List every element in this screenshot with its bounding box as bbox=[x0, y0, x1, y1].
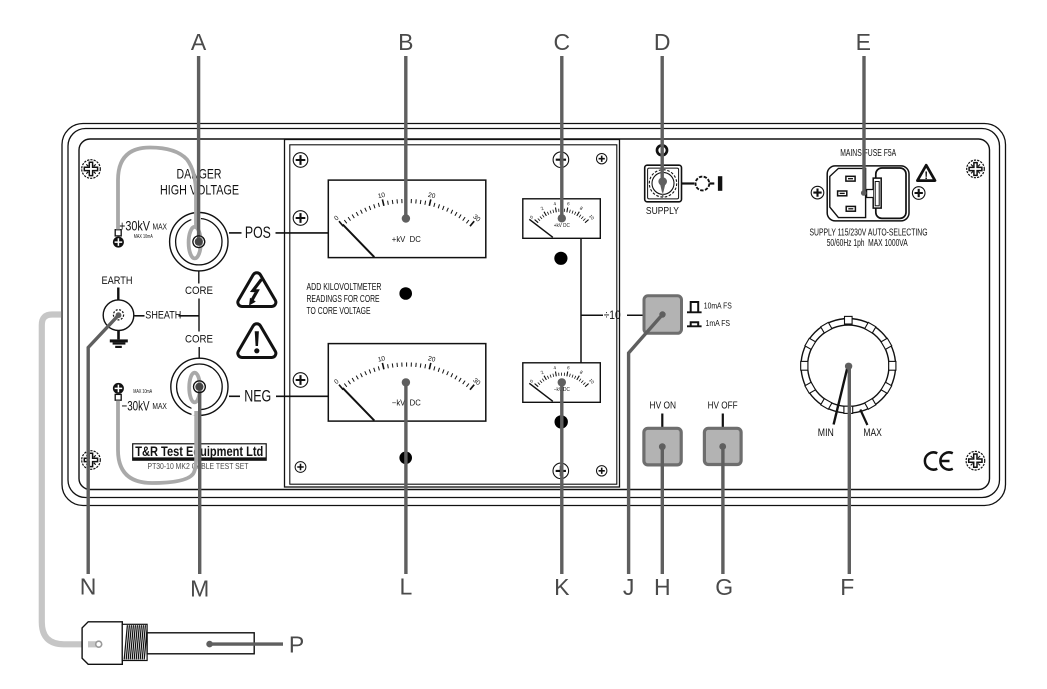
button HV OFF (G) bbox=[704, 428, 741, 464]
leader G bbox=[719, 443, 726, 450]
svg-text:L: L bbox=[400, 574, 413, 600]
kilovoltmeter L (-kV DC) bbox=[328, 344, 486, 422]
svg-text:HV ON: HV ON bbox=[650, 400, 677, 411]
hole below meter C bbox=[554, 252, 567, 265]
logo T&R Test Equipment Ltd bbox=[133, 444, 267, 460]
leader J bbox=[659, 311, 665, 317]
screw panel top-right bbox=[967, 160, 985, 178]
screw sub-panel bottom-mid bbox=[553, 463, 569, 479]
screw panel bottom-left bbox=[82, 451, 101, 470]
warning triangle lightning bbox=[238, 273, 276, 307]
svg-text:!: ! bbox=[924, 170, 928, 182]
leader H bbox=[659, 443, 666, 450]
probe body (P) bbox=[82, 622, 254, 665]
knob grip notches bbox=[845, 316, 853, 324]
leader C bbox=[560, 56, 563, 218]
screw sub-panel top-left bbox=[293, 153, 308, 168]
wire to range switch J bbox=[581, 314, 603, 316]
svg-text:N: N bbox=[80, 574, 97, 600]
svg-text:MAX 10mA: MAX 10mA bbox=[133, 389, 152, 395]
hole below meter L bbox=[399, 452, 412, 465]
svg-text:EARTH: EARTH bbox=[102, 275, 133, 287]
leader B bbox=[404, 56, 407, 218]
svg-text:SUPPLY: SUPPLY bbox=[646, 205, 679, 217]
svg-text:D: D bbox=[654, 29, 671, 55]
symbol O (off) bbox=[657, 145, 667, 155]
connector NEG (M) bbox=[171, 358, 228, 415]
wire EARTH label to terminal bbox=[117, 288, 119, 301]
screw sub-panel left-lower bbox=[293, 373, 308, 388]
wire CORE to CORE bbox=[198, 299, 200, 332]
svg-text:F: F bbox=[840, 574, 854, 600]
probe thread bbox=[122, 624, 147, 660]
svg-text:+30kV: +30kV bbox=[119, 217, 151, 233]
svg-text:K: K bbox=[554, 574, 570, 600]
front panel bbox=[79, 139, 990, 490]
svg-text:ADD KILOVOLTMETER: ADD KILOVOLTMETER bbox=[307, 282, 382, 293]
wire meter C to meter K bbox=[580, 238, 582, 362]
screw sub-panel top-mid bbox=[553, 152, 569, 168]
control knob F bbox=[801, 316, 896, 413]
svg-text:MAX: MAX bbox=[863, 427, 882, 439]
screw inlet right bbox=[912, 187, 925, 200]
leader N bbox=[88, 315, 118, 574]
leader K bbox=[558, 378, 566, 386]
leader L bbox=[402, 378, 410, 386]
svg-text:50/60Hz 1ph MAX 1000VA: 50/60Hz 1ph MAX 1000VA bbox=[827, 238, 908, 249]
svg-text:−30kV: −30kV bbox=[122, 398, 150, 414]
jumper cable +30kV to POS bbox=[118, 148, 196, 230]
svg-text:MAX 10mA: MAX 10mA bbox=[134, 234, 153, 240]
svg-text:P: P bbox=[289, 632, 304, 658]
svg-text:1mA FS: 1mA FS bbox=[706, 318, 731, 328]
screw panel top-left bbox=[82, 160, 101, 179]
screw sub-panel bottom-right bbox=[597, 466, 607, 476]
leader D (key) bbox=[661, 56, 664, 181]
leader A bbox=[197, 56, 200, 242]
MAX position mark bbox=[860, 410, 867, 426]
svg-text:MAX: MAX bbox=[153, 223, 168, 232]
svg-text:TO CORE VOLTAGE: TO CORE VOLTAGE bbox=[307, 306, 371, 317]
IEC mains inlet with fuse (E) bbox=[827, 166, 909, 221]
jumper cable -30kV to NEG bbox=[118, 401, 196, 484]
warning triangle exclamation bbox=[238, 324, 276, 358]
svg-text:J: J bbox=[623, 574, 635, 600]
knob pointer bbox=[834, 367, 848, 425]
wire NEG to meter L bbox=[276, 395, 329, 397]
leader F bbox=[845, 363, 852, 370]
case outer shell bbox=[62, 124, 1006, 506]
label NEG bbox=[229, 395, 240, 397]
screw panel bottom-right bbox=[966, 451, 985, 470]
screw sub-panel top-right bbox=[597, 154, 607, 164]
label SHEATH bbox=[135, 315, 145, 317]
meter K small (-kV DC) bbox=[523, 363, 601, 403]
hole below ADD text bbox=[399, 287, 412, 300]
svg-text:HV OFF: HV OFF bbox=[708, 400, 738, 411]
white gap where cable crosses NEG rings bbox=[192, 403, 199, 415]
svg-text:POS: POS bbox=[245, 223, 271, 242]
svg-text:10mA FS: 10mA FS bbox=[704, 301, 732, 311]
button HV ON (H) bbox=[644, 428, 681, 465]
svg-text:SUPPLY 115/230V AUTO-SELECTING: SUPPLY 115/230V AUTO-SELECTING bbox=[810, 228, 928, 239]
svg-text:NEG: NEG bbox=[244, 387, 271, 406]
leader M bbox=[198, 391, 201, 574]
icon button in 1mA bbox=[687, 322, 702, 326]
svg-text:+kV DC: +kV DC bbox=[392, 235, 421, 244]
svg-text:C: C bbox=[553, 29, 570, 55]
label POS bbox=[229, 232, 242, 234]
svg-text:÷10: ÷10 bbox=[604, 308, 621, 322]
leader E bbox=[862, 56, 865, 192]
svg-text:E: E bbox=[856, 29, 871, 55]
meter C small (+kV DC) bbox=[523, 199, 601, 239]
svg-text:G: G bbox=[715, 574, 733, 600]
svg-text:MIN: MIN bbox=[818, 427, 834, 439]
svg-text:CORE: CORE bbox=[185, 333, 213, 345]
svg-text:M: M bbox=[190, 576, 209, 602]
wire POS to CORE bbox=[198, 271, 200, 284]
svg-text:CORE: CORE bbox=[185, 285, 213, 297]
svg-text:+kV DC: +kV DC bbox=[554, 223, 570, 229]
svg-text:READINGS FOR CORE: READINGS FOR CORE bbox=[307, 294, 380, 305]
range switch J bbox=[644, 296, 682, 334]
connector POS (A) bbox=[170, 213, 228, 271]
screw sub-panel bottom-left bbox=[295, 462, 306, 473]
icon button out 10mA bbox=[687, 302, 702, 312]
symbol I (on) bbox=[682, 182, 695, 184]
terminal -30kV bbox=[113, 383, 124, 400]
wire CORE to NEG bbox=[198, 347, 200, 358]
screw sub-panel left-upper bbox=[293, 211, 308, 226]
screw inlet left bbox=[811, 186, 824, 199]
svg-text:A: A bbox=[191, 29, 207, 55]
svg-text:MAX: MAX bbox=[152, 402, 167, 411]
CE mark bbox=[925, 452, 953, 469]
leader P bbox=[206, 641, 213, 648]
terminal +30kV bbox=[113, 230, 124, 248]
svg-text:MAINS FUSE F5A: MAINS FUSE F5A bbox=[840, 148, 896, 159]
kilovoltmeter B (+kV DC) bbox=[328, 180, 486, 258]
svg-text:H: H bbox=[654, 574, 671, 600]
ground symbol bbox=[110, 331, 128, 349]
warning triangle small bbox=[917, 165, 935, 182]
probe shaft bbox=[147, 633, 254, 654]
svg-text:B: B bbox=[398, 29, 413, 55]
svg-text:SHEATH: SHEATH bbox=[145, 310, 181, 322]
terminal EARTH/SHEATH (N) bbox=[103, 300, 134, 331]
probe cable end bbox=[88, 641, 97, 647]
meter sub-panel bbox=[285, 140, 620, 488]
wire POS to meter B bbox=[276, 232, 329, 234]
key switch SUPPLY (D) bbox=[645, 165, 682, 202]
hole below meter K bbox=[555, 415, 568, 428]
earth lead cable to probe bbox=[42, 315, 96, 645]
